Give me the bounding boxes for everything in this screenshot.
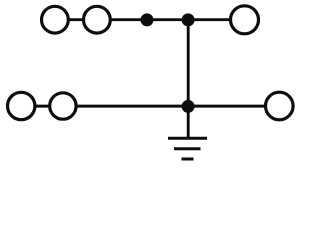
node: top tap point (filled junction dot) [141, 13, 154, 26]
wire: vertical link from top bar through bottom bar to ground [187, 20, 190, 138]
ground: bar 1 (widest) [168, 137, 207, 140]
terminal clamp circle bottom-right [266, 92, 294, 120]
wire: top bridge between clamp circles [66, 18, 86, 21]
terminal clamp circle top-right [231, 6, 259, 34]
node: top junction with vertical link (filled dot) [182, 13, 195, 26]
wire: bottom bridge between clamp circles [32, 105, 52, 108]
wire: bottom conductor bar to right terminal [74, 105, 266, 108]
wire: top conductor bar to right terminal [108, 18, 231, 21]
terminal clamp circle top-left 2 [84, 6, 111, 33]
ground: bar 2 (middle) [174, 147, 201, 150]
terminal clamp circle bottom-left 2 [50, 93, 76, 119]
terminal clamp circle top-left 1 [42, 6, 69, 33]
node: bottom junction with vertical link (filled dot) [182, 100, 195, 113]
ground: bar 3 (shortest) [182, 158, 194, 161]
terminal clamp circle bottom-left 1 [8, 92, 35, 119]
